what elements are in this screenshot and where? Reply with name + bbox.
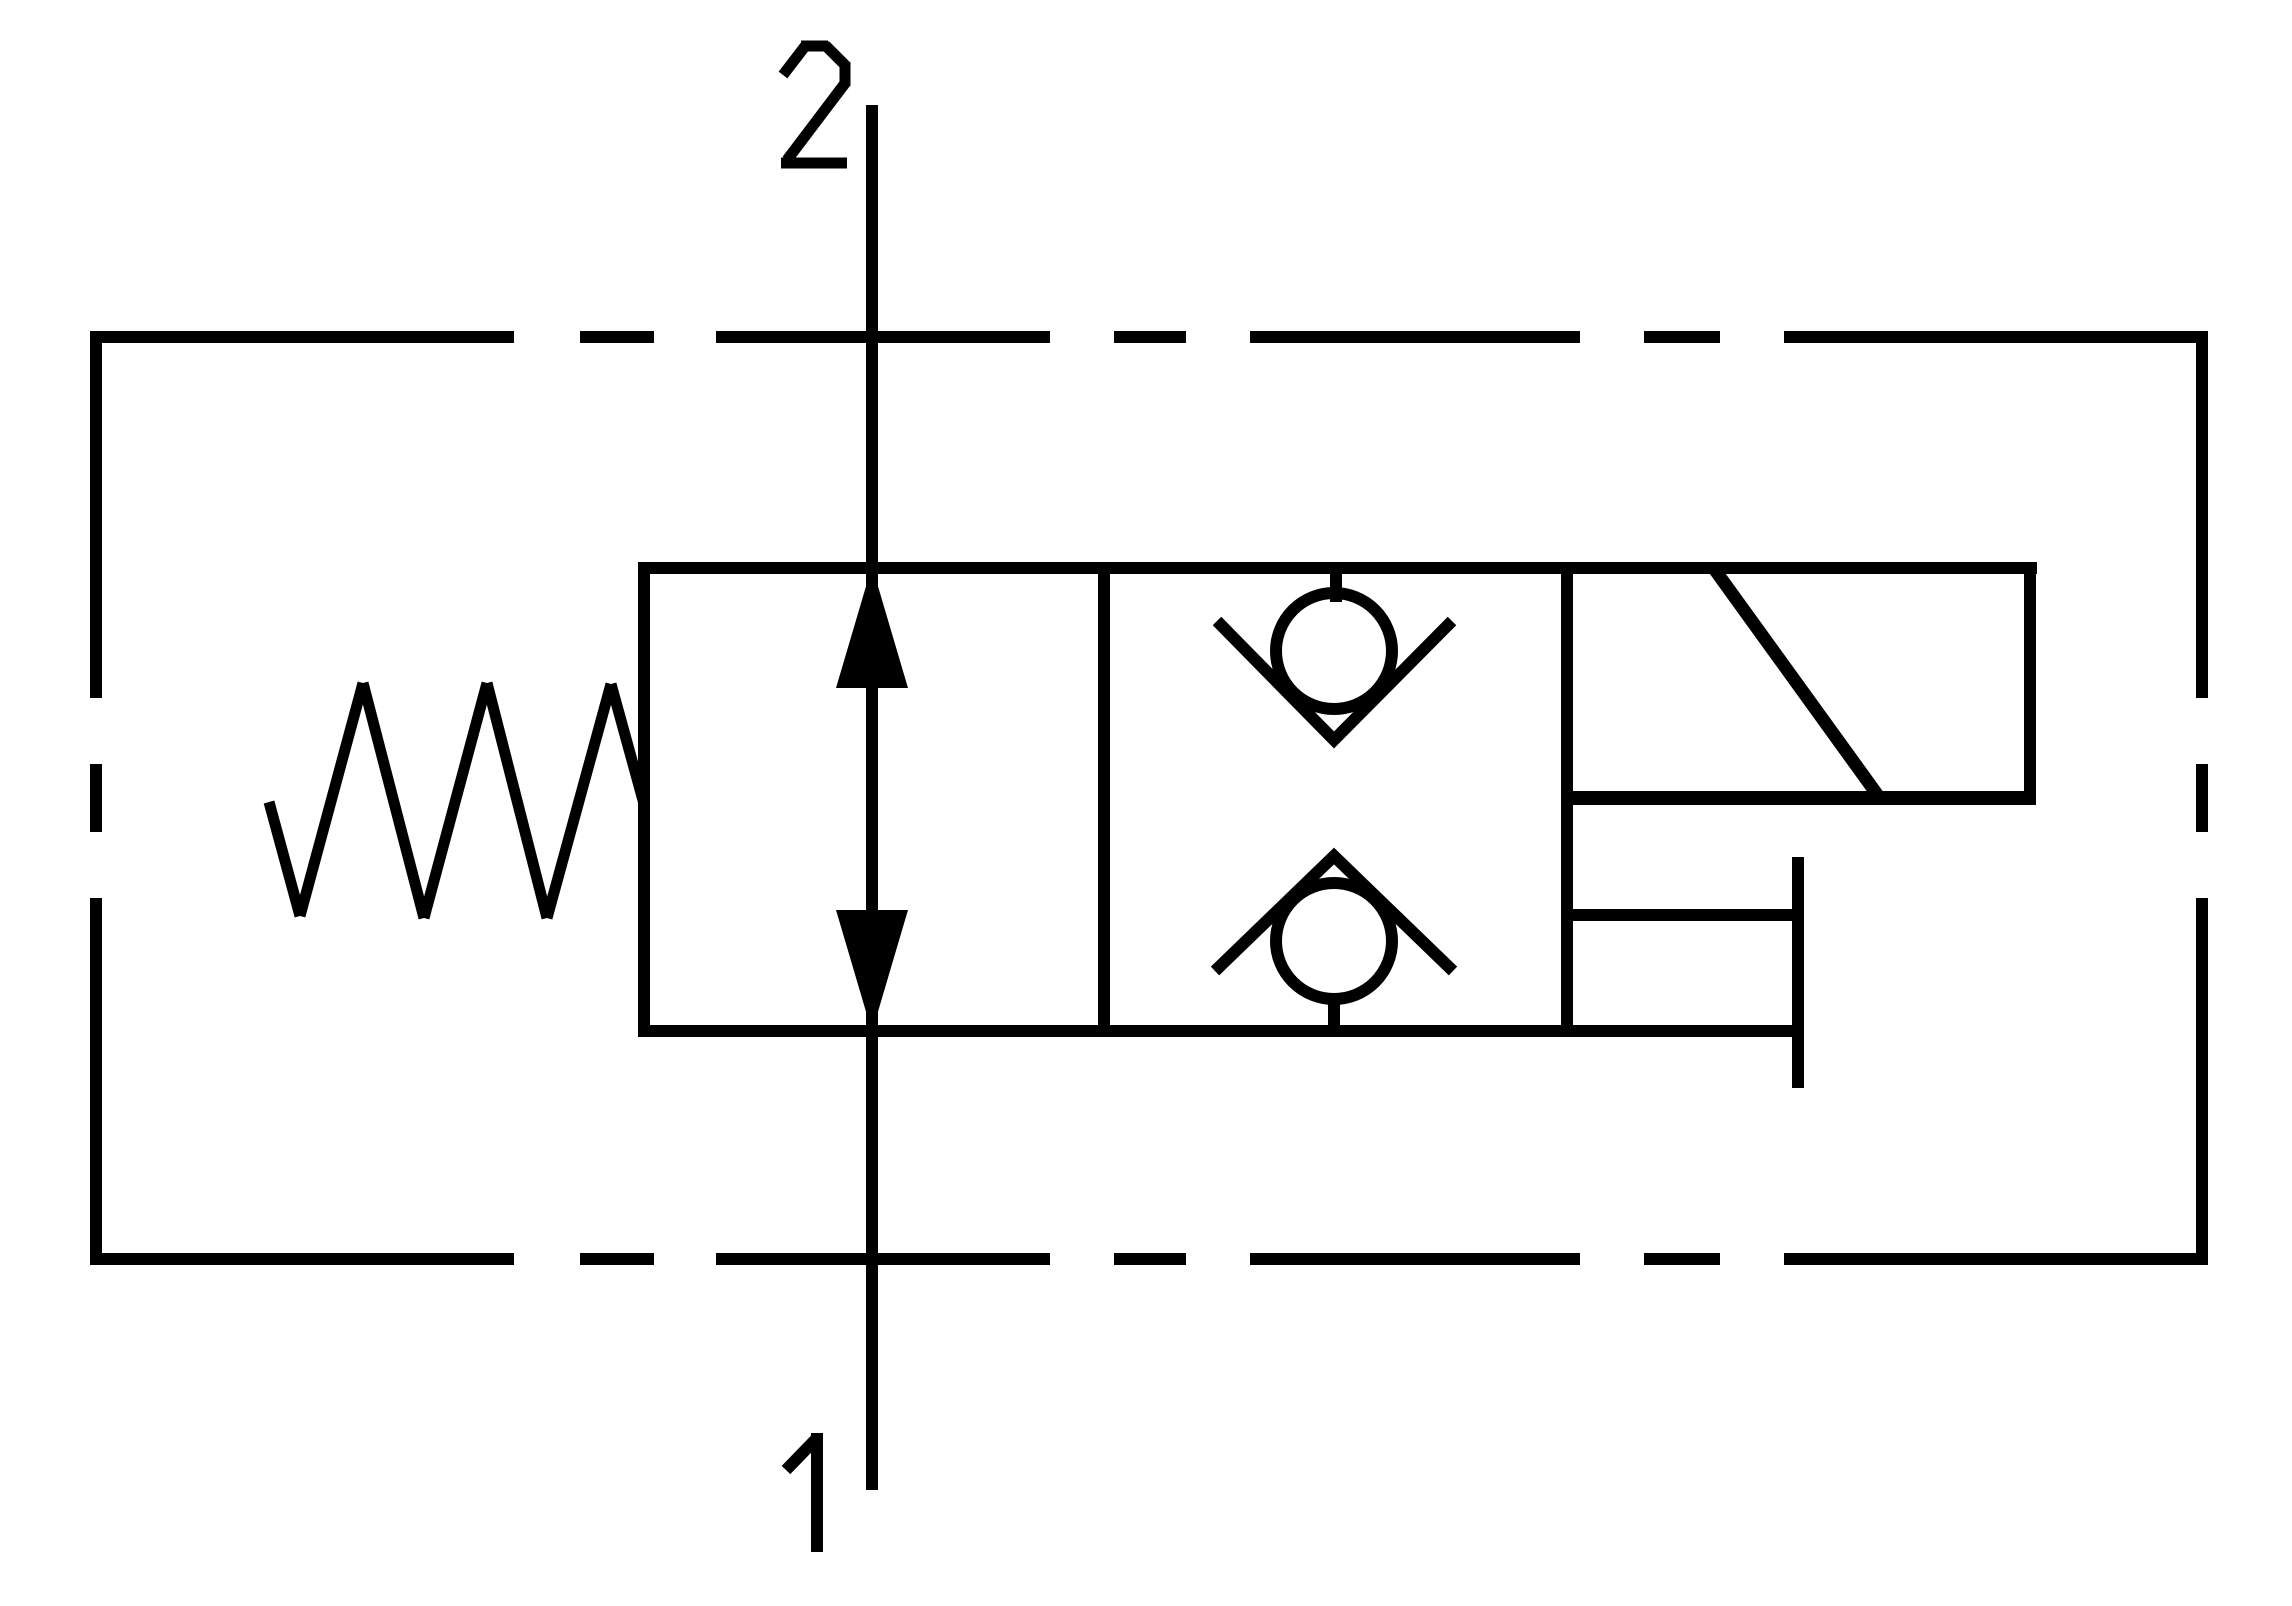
solenoid U1 bottom edge (1561, 791, 2036, 805)
port 2 label (781, 45, 847, 163)
check valve CV2 seat (1215, 856, 1453, 971)
valve box 2 right edge (1561, 562, 1573, 1037)
check valve CV2 ball (1276, 883, 1392, 999)
valve box 1 left edge (638, 562, 650, 1037)
envelope bottom border (dash-dot) (90, 1253, 2208, 1265)
port 1 wire (vertical line from valve to port 1) (866, 1031, 878, 1490)
flow-path down arrowhead (836, 910, 908, 1032)
check valve CV2 stub (1328, 997, 1340, 1031)
envelope left border (dash-dot) (90, 331, 102, 1265)
port 2 wire (vertical line from port 2 to valve) (866, 105, 878, 568)
valve box divider (1098, 568, 1110, 1031)
envelope top border (dash-dot) (90, 331, 2208, 343)
plugged pilot port T-bar (1792, 857, 1804, 1088)
valve body bottom edge (extends to pilot T-bar) (638, 1025, 1799, 1037)
envelope right border (dash-dot) (2196, 331, 2208, 1265)
solenoid U1 right edge (2024, 562, 2036, 805)
flow-path shaft (double arrow line in box 1) (866, 568, 878, 1031)
spring (269, 683, 644, 918)
flow-path up arrowhead (836, 566, 908, 688)
check valve CV1 ball (1276, 593, 1392, 709)
port 1 label (786, 1433, 818, 1552)
valve body top edge (638, 562, 2037, 574)
check valve CV1 stub (1330, 568, 1342, 602)
solenoid U1 diagonal (1715, 570, 1879, 797)
pilot line (1567, 909, 1798, 921)
check valve CV1 seat (1217, 621, 1452, 740)
